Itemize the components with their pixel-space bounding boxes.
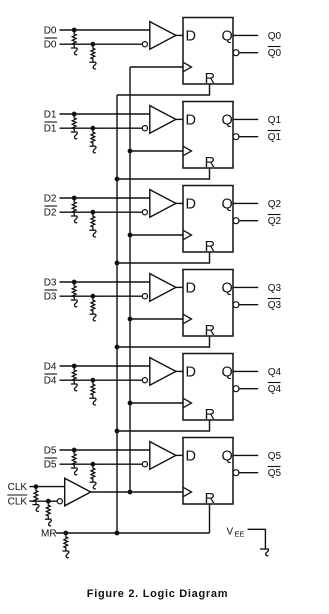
svg-text:EE: EE <box>235 530 245 539</box>
wire D0 bar to buffer <box>60 43 143 45</box>
resistor pulldown on MR <box>62 533 69 558</box>
input buffer stage 3 <box>142 274 176 302</box>
label Q3 <box>268 283 282 294</box>
svg-text:Q0: Q0 <box>268 31 282 42</box>
label D5 <box>44 446 57 457</box>
junction on D5 <box>72 448 77 453</box>
pin label R <box>205 407 215 423</box>
wire D5 bar to buffer <box>60 463 143 465</box>
pin label D <box>186 197 196 213</box>
wire D1 bar to buffer <box>60 127 143 129</box>
MR rail (vertical) <box>116 95 118 533</box>
svg-text:D: D <box>186 29 196 45</box>
wire Q0 output <box>233 34 258 36</box>
wire CLK to buffer <box>29 486 64 488</box>
wire R pin of FF3 to MR rail <box>117 336 210 347</box>
label D3 <box>44 278 57 289</box>
wire buffer output to D pin <box>176 286 183 288</box>
caption <box>87 588 228 600</box>
input buffer stage 2 <box>142 190 176 218</box>
wire buffer output to D pin <box>176 202 183 204</box>
inverted output bubble FF2 <box>233 218 239 224</box>
wire R pin of FF4 to MR rail <box>117 420 210 431</box>
flip-flop FF3 body <box>183 270 233 337</box>
svg-text:D0: D0 <box>44 40 57 51</box>
pin label Q <box>222 197 233 213</box>
label Q0 <box>268 31 282 42</box>
wire Q0 bar output <box>239 52 258 54</box>
svg-text:Q4: Q4 <box>268 384 282 395</box>
wire D5 to buffer <box>60 449 150 451</box>
label Q3 bar <box>268 299 282 312</box>
svg-text:CLK: CLK <box>8 497 28 508</box>
svg-text:D4: D4 <box>44 362 57 373</box>
pin label R <box>205 239 215 255</box>
wire clock branch to FF3 <box>130 318 183 320</box>
svg-text:Q: Q <box>222 197 233 213</box>
input buffer stage 4 <box>142 358 176 386</box>
pin label Q <box>222 113 233 129</box>
wire D0 to buffer <box>60 29 150 31</box>
inverted output bubble FF4 <box>233 386 239 392</box>
junction on D3 <box>72 280 77 285</box>
input buffer stage 1 <box>142 106 176 134</box>
clock input chevron FF0 <box>183 62 192 72</box>
svg-text:Q: Q <box>222 29 233 45</box>
resistor pulldown on D0 bar <box>90 44 97 69</box>
junction on MR <box>63 531 68 536</box>
svg-text:D: D <box>186 365 196 381</box>
label CLK bar <box>7 495 27 508</box>
label D2 bar <box>44 206 57 219</box>
wire CLK bar to buffer <box>29 500 57 502</box>
resistor pulldown on D5 bar <box>90 464 97 489</box>
wire buffer output to D pin <box>176 118 183 120</box>
junction on CLK rail stage 1 <box>128 149 133 154</box>
label Q1 <box>268 115 282 126</box>
clock buffer <box>57 478 90 506</box>
svg-text:D1: D1 <box>44 124 57 135</box>
wire Q5 output <box>233 454 258 456</box>
junction on CLK rail stage 3 <box>128 317 133 322</box>
junction on D2 bar <box>91 210 96 215</box>
input buffer stage 5 <box>142 442 176 470</box>
junction on D1 bar <box>91 126 96 131</box>
svg-text:D5: D5 <box>44 460 57 471</box>
junction on D3 bar <box>91 294 96 299</box>
wire D4 bar to buffer <box>60 379 143 381</box>
svg-text:D: D <box>186 281 196 297</box>
input buffer stage 0 <box>142 22 176 50</box>
wire clock branch to FF5 <box>91 491 183 493</box>
wire clock branch to FF4 <box>130 402 183 404</box>
svg-text:Q: Q <box>222 281 233 297</box>
svg-text:Q: Q <box>222 365 233 381</box>
svg-text:Figure 2. Logic Diagram: Figure 2. Logic Diagram <box>87 588 228 600</box>
pin label D <box>186 449 196 465</box>
junction on CLK bar <box>46 499 51 504</box>
junction on D0 bar <box>91 42 96 47</box>
pin label R <box>205 71 215 87</box>
wire VEE <box>248 529 266 549</box>
wire R pin of FF5 to MR rail <box>209 504 211 533</box>
junction CLK rail / buffer output <box>128 490 133 495</box>
flip-flop FF2 body <box>183 186 233 253</box>
wire MR <box>56 532 210 534</box>
pin label Q <box>222 449 233 465</box>
svg-text:D0: D0 <box>44 26 57 37</box>
svg-text:D5: D5 <box>44 446 57 457</box>
label Q0 bar <box>268 47 282 60</box>
resistor pulldown on D4 <box>71 366 78 391</box>
wire R pin of FF0 to MR rail <box>117 84 210 95</box>
resistor pulldown on CLK <box>33 487 40 512</box>
VEE rail squiggle termination <box>260 549 269 556</box>
wire D2 to buffer <box>60 197 150 199</box>
label D2 <box>44 194 57 205</box>
junction on CLK rail stage 2 <box>128 233 133 238</box>
svg-text:MR: MR <box>41 529 57 540</box>
wire buffer output to D pin <box>176 370 183 372</box>
svg-text:D4: D4 <box>44 376 57 387</box>
svg-text:Q0: Q0 <box>268 48 282 59</box>
pin label R <box>205 491 215 507</box>
wire Q3 output <box>233 286 258 288</box>
resistor pulldown on D2 <box>71 198 78 223</box>
svg-text:D: D <box>186 113 196 129</box>
wire clock branch to FF1 <box>130 150 183 152</box>
svg-text:D: D <box>186 197 196 213</box>
svg-text:D3: D3 <box>44 278 57 289</box>
clock input chevron FF2 <box>183 230 192 240</box>
clock input chevron FF3 <box>183 314 192 324</box>
wire Q4 output <box>233 370 258 372</box>
pin label D <box>186 113 196 129</box>
wire R pin of FF1 to MR rail <box>117 168 210 179</box>
label Q4 bar <box>268 383 282 396</box>
resistor pulldown on D2 bar <box>90 212 97 237</box>
label D1 bar <box>44 122 57 135</box>
svg-text:Q3: Q3 <box>268 283 282 294</box>
resistor pulldown on D0 <box>71 30 78 55</box>
svg-text:Q1: Q1 <box>268 132 282 143</box>
svg-text:D2: D2 <box>44 208 57 219</box>
wire Q5 bar output <box>239 472 258 474</box>
wire D4 to buffer <box>60 365 150 367</box>
wire Q1 output <box>233 118 258 120</box>
label Q1 bar <box>268 131 282 144</box>
flip-flop FF1 body <box>183 102 233 169</box>
inverted output bubble FF0 <box>233 50 239 56</box>
wire Q1 bar output <box>239 136 258 138</box>
flip-flop FF4 body <box>183 354 233 421</box>
resistor pulldown on CLK bar <box>45 501 52 526</box>
resistor pulldown on D3 bar <box>90 296 97 321</box>
wire buffer output to D pin <box>176 34 183 36</box>
svg-text:Q: Q <box>222 113 233 129</box>
svg-text:Q: Q <box>222 449 233 465</box>
pin label Q <box>222 281 233 297</box>
label D4 bar <box>44 374 57 387</box>
pin label D <box>186 29 196 45</box>
flip-flop FF5 body <box>183 438 233 505</box>
label D0 <box>44 26 57 37</box>
junction on CLK rail stage 4 <box>128 401 133 406</box>
resistor pulldown on D4 bar <box>90 380 97 405</box>
wire D3 to buffer <box>60 281 150 283</box>
label D3 bar <box>44 290 57 303</box>
label CLK <box>8 482 28 493</box>
label D4 <box>44 362 57 373</box>
svg-text:D: D <box>186 449 196 465</box>
label D0 bar <box>44 38 57 51</box>
junction on MR rail stage 3 <box>115 345 120 350</box>
resistor pulldown on D1 bar <box>90 128 97 153</box>
pin label D <box>186 365 196 381</box>
svg-text:D1: D1 <box>44 110 57 121</box>
svg-text:Q4: Q4 <box>268 367 282 378</box>
wire Q3 bar output <box>239 304 258 306</box>
svg-text:Q1: Q1 <box>268 115 282 126</box>
label Q5 bar <box>268 467 282 480</box>
wire Q4 bar output <box>239 388 258 390</box>
junction on D1 <box>72 112 77 117</box>
inverted output bubble FF5 <box>233 470 239 476</box>
inverted output bubble FF3 <box>233 302 239 308</box>
junction on MR rail stage 1 <box>115 177 120 182</box>
junction on D2 <box>72 196 77 201</box>
clock input chevron FF1 <box>183 146 192 156</box>
label D5 bar <box>44 458 57 471</box>
resistor pulldown on D1 <box>71 114 78 139</box>
clock input chevron FF5 <box>183 487 192 497</box>
label MR <box>41 529 57 540</box>
inverted output bubble FF1 <box>233 134 239 140</box>
wire clock branch to FF2 <box>130 234 183 236</box>
junction on MR rail stage 2 <box>115 261 120 266</box>
pin label Q <box>222 29 233 45</box>
label Q2 <box>268 199 282 210</box>
pin label R <box>205 155 215 171</box>
power VEE label <box>227 527 245 539</box>
junction on D5 bar <box>91 462 96 467</box>
junction on CLK <box>34 484 39 489</box>
svg-text:Q3: Q3 <box>268 300 282 311</box>
wire D3 bar to buffer <box>60 295 143 297</box>
CLK rail (vertical) <box>129 67 131 492</box>
clock input chevron FF4 <box>183 398 192 408</box>
pin label R <box>205 323 215 339</box>
label Q2 bar <box>268 215 282 228</box>
svg-text:CLK: CLK <box>8 482 28 493</box>
wire D2 bar to buffer <box>60 211 143 213</box>
junction on MR rail stage 4 <box>115 429 120 434</box>
svg-text:V: V <box>227 527 234 538</box>
wire D1 to buffer <box>60 113 150 115</box>
resistor pulldown on D5 <box>71 450 78 475</box>
junction MR rail to MR wire <box>115 531 120 536</box>
svg-text:Q5: Q5 <box>268 468 282 479</box>
junction on D4 <box>72 364 77 369</box>
svg-text:Q2: Q2 <box>268 216 282 227</box>
wire Q2 output <box>233 202 258 204</box>
wire R pin of FF2 to MR rail <box>117 252 210 263</box>
svg-text:Q2: Q2 <box>268 199 282 210</box>
svg-text:D2: D2 <box>44 194 57 205</box>
flip-flop FF0 body <box>183 18 233 85</box>
label Q5 <box>268 451 282 462</box>
wire clock branch to FF0 <box>130 66 183 68</box>
wire Q2 bar output <box>239 220 258 222</box>
label Q4 <box>268 367 282 378</box>
pin label D <box>186 281 196 297</box>
wire buffer output to D pin <box>176 454 183 456</box>
pin label Q <box>222 365 233 381</box>
svg-text:Q5: Q5 <box>268 451 282 462</box>
junction on D4 bar <box>91 378 96 383</box>
svg-text:D3: D3 <box>44 292 57 303</box>
resistor pulldown on D3 <box>71 282 78 307</box>
label D1 <box>44 110 57 121</box>
junction on D0 <box>72 28 77 33</box>
